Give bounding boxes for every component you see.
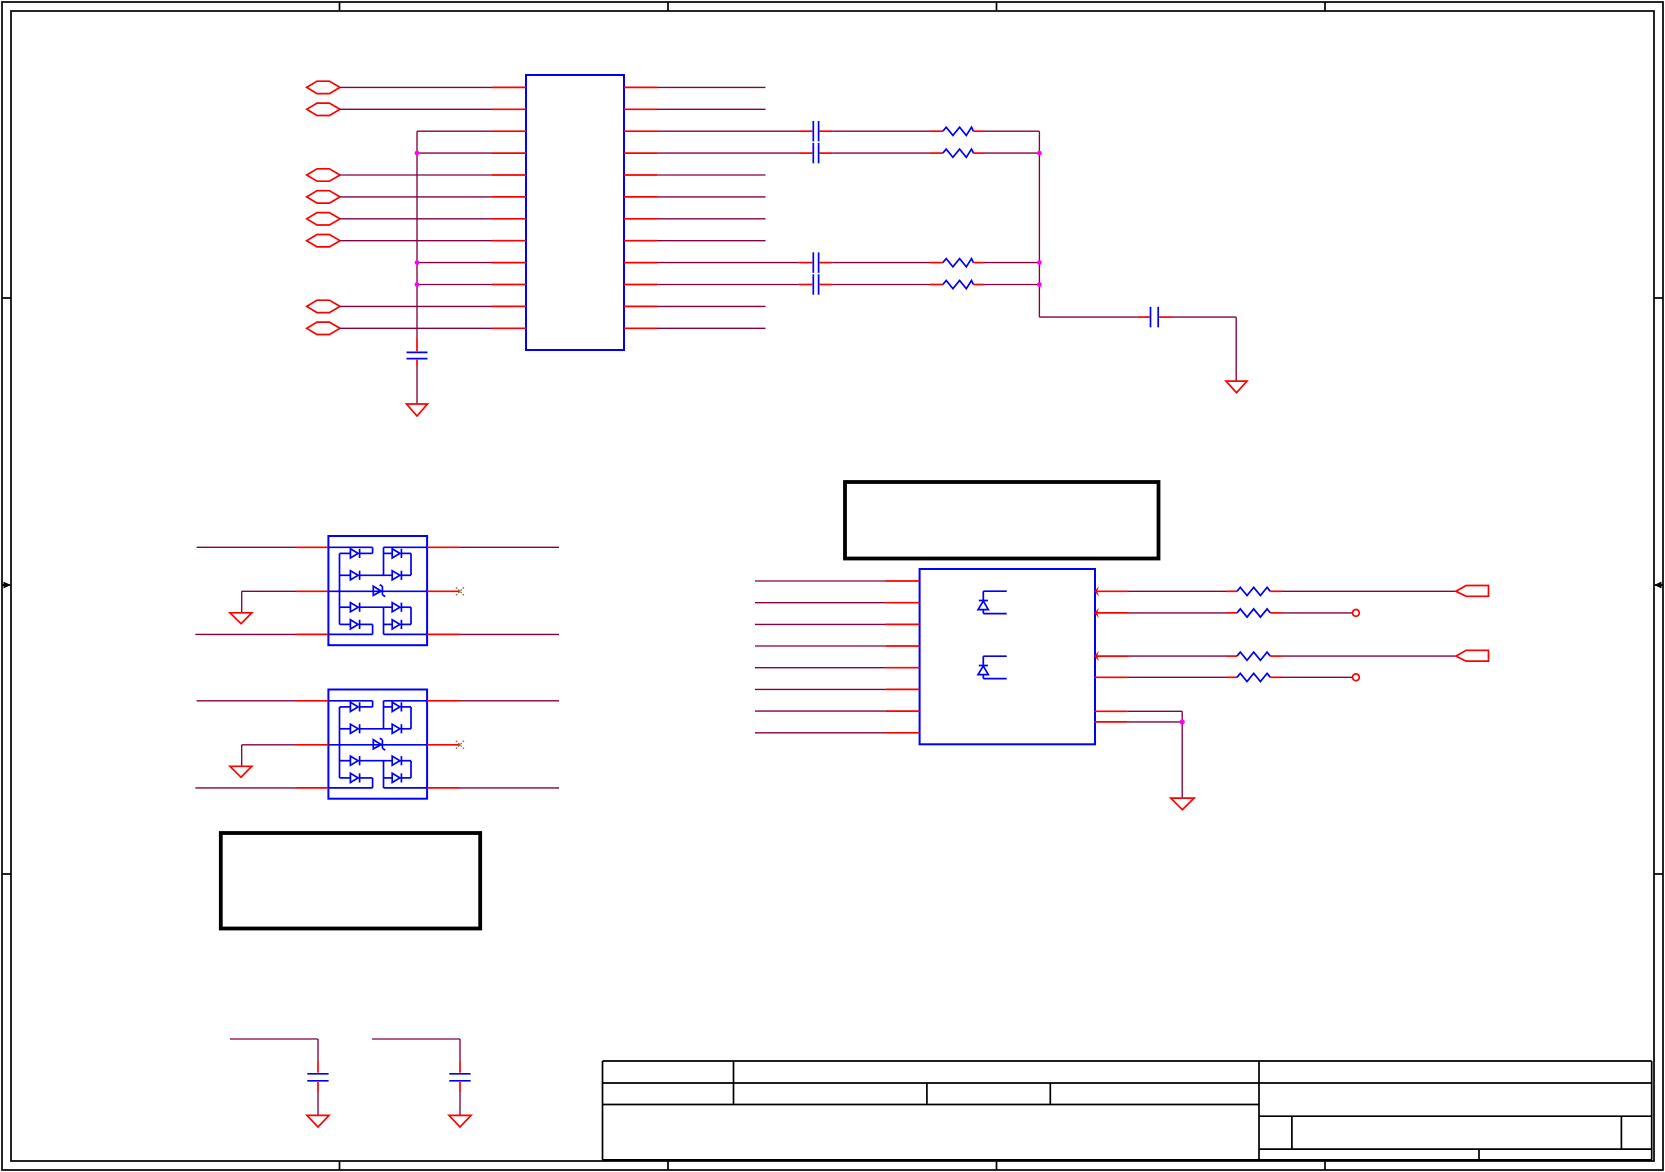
port P6 (hexagonal sheet entry) (307, 191, 340, 203)
port P1 (hexagonal sheet entry) (307, 81, 340, 93)
ground symbol GND5 (1171, 798, 1194, 810)
wire to U3 pin 1 (197, 700, 296, 702)
input arrow on U4 pin (1094, 586, 1099, 596)
U2 internal bottom rail (328, 607, 427, 634)
resistor R6 (1227, 609, 1282, 617)
port P8 (hexagonal sheet entry) (307, 235, 340, 247)
internal diode symbol (978, 591, 1007, 613)
input arrow on U4 pin (1094, 608, 1099, 618)
wire U4 gnd pin b (1128, 721, 1182, 723)
resistor R1 (930, 127, 984, 135)
wire U1 right pin row 10 to cap (657, 284, 799, 286)
ground symbol GND3 (230, 613, 252, 624)
ground symbol GND2 (1226, 381, 1247, 393)
open terminal circle (1353, 674, 1360, 681)
wire C2 to R1 (832, 130, 930, 132)
capacitor C1 (decoupling, vertical) (407, 338, 428, 366)
wire port P7 to U1 (340, 218, 492, 220)
resistor R5 (1227, 587, 1282, 595)
ground symbol GND7 (449, 1115, 471, 1127)
diode D2f (392, 756, 411, 778)
diode D1c (340, 571, 393, 580)
input arrow on U4 pin (1094, 651, 1099, 661)
internal diode symbol (978, 656, 1007, 678)
wire ground to U2 pin 2 (242, 591, 296, 612)
label box 2 (empty annotation frame) (221, 833, 480, 929)
wire C1 to ground (416, 366, 418, 404)
junction dots on right bus (1037, 151, 1042, 287)
capacitor C7 (307, 1062, 328, 1092)
ground symbol GND4 (230, 766, 252, 777)
U1 left pin stubs (492, 87, 526, 328)
border center arrow left (2, 582, 11, 589)
wire bus to U1 pin row 10 (417, 284, 492, 286)
wire R1 to right bus (984, 130, 1039, 132)
resistor R8 (1227, 673, 1282, 681)
diode D1b (384, 549, 412, 576)
capacitor C8 (449, 1062, 470, 1092)
wire bus to U1 pin row 9 (417, 262, 492, 264)
diode D2g (340, 773, 373, 788)
wire port P2 to U1 (340, 108, 492, 110)
junction dots on left bus (415, 151, 420, 287)
wire U1 right pin row 4 to cap (657, 152, 799, 154)
capacitor C3 (series) (799, 143, 832, 163)
wire to U3 pin 3 (195, 787, 296, 789)
zener diode Z1 (373, 585, 385, 597)
wire U1 right pin row 5 (657, 174, 766, 176)
wire to U4 left pin 4 (755, 645, 886, 647)
label box (empty annotation frame) (845, 482, 1159, 559)
wire R3 to right bus (984, 262, 1039, 264)
diode D1f (392, 603, 411, 625)
capacitor C6 (series horizontal) (1138, 307, 1171, 328)
diode D1d (392, 571, 411, 580)
wire U1 right pin row 11 (657, 305, 766, 307)
wire from U3 right pin 4 (460, 787, 560, 789)
border zone ticks bottom (340, 1161, 1326, 1170)
wire U4 pin to R8 (1129, 676, 1227, 678)
open terminal circle (1353, 610, 1360, 617)
U2 internal left bus (339, 553, 341, 624)
resistor R2 (930, 149, 984, 157)
ground symbol GND6 (307, 1115, 329, 1127)
no-connect X on U3 pin 5 (456, 741, 464, 749)
border zone ticks left (2, 298, 11, 874)
diode D1h (384, 620, 412, 629)
wire U1 right pin row 2 (657, 108, 766, 110)
wire R5 to PORT1 (1281, 590, 1456, 592)
ESD diode array U3 body (328, 690, 427, 799)
wire to open terminal (1281, 676, 1353, 678)
port PORT1 (arrow tag) (1456, 586, 1489, 597)
diode D1a (340, 549, 373, 558)
wire from U2 right pin 1 (460, 546, 560, 548)
U3 internal top rail (328, 701, 427, 729)
port PORT2 (arrow tag) (1456, 650, 1489, 661)
wire U1 right pin row 3 to cap (657, 130, 799, 132)
wire ground to U3 pin 2 (242, 745, 296, 766)
port P7 (hexagonal sheet entry) (307, 213, 340, 225)
wire to U4 left pin 3 (755, 623, 886, 625)
wire to U4 left pin 7 (755, 710, 886, 712)
wire stub to C7 (230, 1039, 318, 1062)
capacitor C5 (series) (799, 274, 832, 294)
wire bus bottom horizontal (1039, 316, 1137, 318)
wire port P12 to U1 (340, 327, 492, 329)
wire to U4 left pin 8 (755, 732, 886, 734)
U4 left pin stubs (886, 581, 920, 733)
resistor R7 (1227, 652, 1282, 660)
port P12 (hexagonal sheet entry) (307, 322, 340, 334)
wire R7 to PORT2 (1281, 655, 1456, 657)
wire bus to U1 pin row 4 (417, 152, 492, 154)
capacitor C4 (series) (799, 252, 832, 272)
U2 pin stubs (296, 547, 460, 634)
wire U1 right pin row 9 to cap (657, 262, 799, 264)
wire port P1 to U1 (340, 86, 492, 88)
wire U1 right pin row 12 (657, 327, 766, 329)
diode D2d (392, 724, 411, 733)
wire to U2 pin 3 (195, 633, 296, 635)
U2 internal top rail (328, 547, 427, 575)
wire R2 to right bus (984, 152, 1039, 154)
diode D2b (384, 702, 412, 729)
border zone ticks right (1654, 298, 1663, 874)
diode D2c (340, 724, 393, 733)
wire from U3 right pin 1 (460, 700, 560, 702)
U1 right pin stubs (624, 87, 657, 328)
U3 pin stubs (296, 701, 460, 788)
op-amp U1 top interface IC body (526, 75, 624, 350)
wire C8 to ground (459, 1092, 461, 1115)
wire to U2 pin 1 (197, 546, 296, 548)
wire U4 gnd pin a (1128, 711, 1182, 798)
wire to U4 left pin 6 (755, 688, 886, 690)
diode D2e (340, 756, 393, 765)
wire U1 right pin row 7 (657, 218, 766, 220)
border zone ticks top (340, 2, 1326, 11)
wire to U4 left pin 2 (755, 602, 886, 604)
zener diode Z2 (373, 738, 385, 750)
wire U1 right pin row 6 (657, 196, 766, 198)
U4 right pin stubs (1094, 591, 1128, 722)
port P2 (hexagonal sheet entry) (307, 103, 340, 115)
wire to open terminal (1281, 612, 1353, 614)
capacitor C2 (series) (799, 121, 832, 141)
diode D2a (340, 702, 373, 711)
wire U1 right pin row 1 (657, 86, 766, 88)
wire C4 to R3 (832, 262, 930, 264)
wire C7 to ground (317, 1092, 319, 1115)
port P11 (hexagonal sheet entry) (307, 300, 340, 312)
wire C5 to R4 (832, 284, 930, 286)
ground symbol GND1 (407, 404, 428, 416)
wire stub to C8 (372, 1039, 460, 1062)
transceiver U4 body (920, 569, 1095, 744)
resistor R4 (930, 281, 984, 289)
wire port P5 to U1 (340, 174, 492, 176)
ESD diode array U2 body (328, 536, 427, 645)
U3 middle rail (328, 744, 427, 746)
wire port P11 to U1 (340, 305, 492, 307)
wire U4 pin to R5 (1129, 590, 1227, 592)
wire from U2 right pin 4 (460, 633, 560, 635)
wire bus to U1 pin row 3 (417, 130, 492, 132)
resistor R3 (930, 259, 984, 267)
wire R4 to right bus (984, 284, 1039, 286)
wire C3 to R2 (832, 152, 930, 154)
wire to U4 left pin 1 (755, 580, 886, 582)
diode D1e (340, 603, 393, 612)
no-connect X on U2 pin 5 (456, 587, 464, 595)
U3 internal left bus (339, 707, 341, 778)
wire port P8 to U1 (340, 240, 492, 242)
wire U4 pin to R6 (1129, 612, 1227, 614)
U3 internal bottom rail (328, 761, 427, 788)
diode D1g (340, 620, 373, 635)
wire U4 pin to R7 (1129, 655, 1227, 657)
wire to U4 left pin 5 (755, 667, 886, 669)
title block (603, 1061, 1653, 1160)
U2 middle rail (328, 590, 427, 592)
wire port P6 to U1 (340, 196, 492, 198)
wire right vertical bus (1038, 131, 1040, 317)
wire U1 right pin row 8 (657, 240, 766, 242)
port P5 (hexagonal sheet entry) (307, 169, 340, 181)
junction dot (1180, 719, 1185, 724)
diode D2h (384, 773, 412, 782)
wire C6 to ground (1171, 317, 1236, 381)
wire left vertical bus (416, 131, 418, 338)
border center arrow right (1654, 582, 1663, 589)
